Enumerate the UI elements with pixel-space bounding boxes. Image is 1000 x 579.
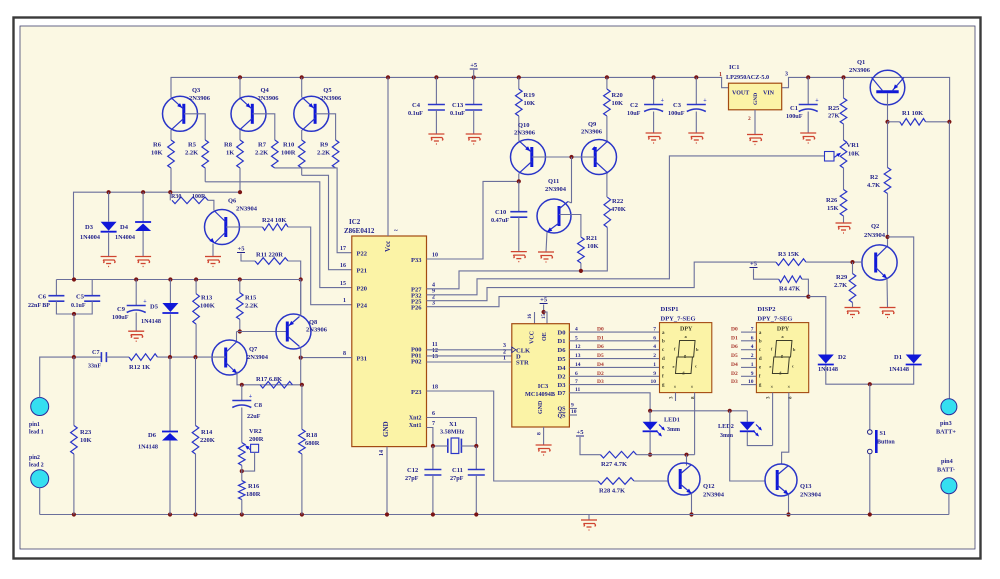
svg-text:×: × (787, 386, 790, 391)
wire DISP1 left stub (675, 393, 677, 401)
capacitor C10 0.47uF (518, 181, 520, 211)
svg-text:1N4148: 1N4148 (889, 366, 909, 373)
pin3 BATT+ terminal (941, 399, 957, 415)
wire R29 to ground (852, 303, 854, 308)
svg-text:R1 10K: R1 10K (902, 110, 923, 117)
wire DISP2 stub D4 (741, 366, 756, 368)
wire P01 to IC3 D (427, 355, 512, 357)
svg-text:R14: R14 (201, 429, 213, 436)
svg-text:3: 3 (432, 301, 435, 307)
wire Q3 collector (170, 130, 172, 140)
wire P25 pin2 to R3 (427, 262, 777, 301)
wire Q12 collector (686, 455, 688, 466)
wire R14 to bus (195, 454, 197, 515)
svg-text:680R: 680R (305, 440, 320, 447)
transistor Q4 2N3906 (231, 96, 266, 131)
svg-text:Q13: Q13 (800, 483, 812, 490)
svg-text:100K: 100K (200, 303, 215, 310)
junction Q12 emitter (689, 512, 693, 516)
svg-text:Xnt1: Xnt1 (409, 423, 422, 429)
wire Q8 emitter up (300, 280, 302, 316)
wire C9 to ground (135, 313, 137, 332)
wire P32 pin9 to VR1 wiper (427, 156, 826, 295)
svg-text:100R: 100R (281, 150, 296, 157)
junction Q10/C10/P33 (517, 179, 521, 183)
junction bottom bus (474, 512, 478, 516)
svg-text:pin3: pin3 (940, 420, 952, 427)
svg-text:C1: C1 (790, 105, 798, 112)
svg-text:GND: GND (382, 421, 390, 437)
transistor Q11 2N3904 (537, 199, 571, 233)
junction +5 bus (299, 277, 303, 281)
IC3 QS stubs (569, 408, 577, 410)
svg-text:D3: D3 (85, 224, 94, 231)
wire pin2 to bus (39, 488, 41, 515)
junction on rail (517, 75, 521, 79)
junction bottom bus (240, 512, 244, 516)
svg-text:C10: C10 (495, 209, 506, 216)
junction base link (569, 155, 573, 159)
svg-text:D2: D2 (558, 374, 566, 381)
svg-text:7: 7 (575, 379, 578, 385)
svg-text:R7: R7 (258, 142, 267, 149)
svg-text:4: 4 (653, 344, 656, 350)
wire C10 to ground (518, 217, 520, 251)
wire DISP2 stub D2 (741, 375, 756, 377)
wire R12 to Q7 base (158, 356, 226, 358)
svg-text:1K: 1K (226, 150, 234, 157)
wire Q7 collector (236, 332, 238, 343)
svg-text:C5: C5 (76, 294, 85, 301)
svg-text:D3: D3 (558, 382, 567, 389)
crystal X1 3.58MHz (447, 439, 449, 453)
transistor Q9 2N3906 (582, 140, 617, 175)
svg-text:+: + (143, 299, 147, 305)
svg-text:C8: C8 (254, 402, 263, 409)
wire D3 to ground (108, 233, 110, 257)
svg-text:3.58MHz: 3.58MHz (440, 429, 464, 436)
svg-text:pin4: pin4 (941, 458, 953, 465)
resistor R13 100K (195, 280, 197, 294)
svg-text:R26: R26 (826, 197, 838, 204)
wire D6 to bus (169, 441, 171, 515)
junction R21/P27 (579, 269, 583, 273)
wire IC1 GND to ground (754, 110, 756, 135)
svg-text:0.1uF: 0.1uF (408, 110, 423, 117)
svg-text:LED2: LED2 (718, 423, 734, 430)
svg-text:DISP2: DISP2 (757, 306, 775, 313)
svg-text:P23: P23 (411, 389, 422, 396)
junction bottom bus (72, 512, 76, 516)
svg-text:2N3906: 2N3906 (849, 67, 871, 74)
svg-text:DPY_7-SEG: DPY_7-SEG (757, 316, 792, 323)
resistor R15 2.2K (239, 280, 241, 293)
svg-text:QS: QS (557, 407, 566, 413)
wire Q12 emitter to bus (691, 494, 693, 515)
svg-text:MC14094B: MC14094B (525, 391, 555, 398)
svg-text:pin2: pin2 (29, 455, 40, 461)
wire IC3 to DISP1 segment D4 (569, 366, 659, 368)
svg-text:100uF: 100uF (112, 314, 129, 321)
svg-text:16: 16 (528, 314, 533, 320)
wire P26 pin3 to D2 node (427, 297, 809, 307)
svg-text:10K: 10K (151, 150, 163, 157)
transistor Q5 2N3906 (294, 96, 329, 131)
svg-text:R28 4.7K: R28 4.7K (599, 488, 625, 495)
wire IC3 to DISP1 segment D2 (569, 375, 659, 377)
wire rail right of IC1 (782, 77, 950, 121)
wire C6 node down to pin1 line (73, 314, 75, 357)
resistor R22 470K (604, 197, 611, 227)
svg-text:P24: P24 (357, 303, 368, 310)
resistor R29 2.7K (852, 262, 854, 273)
wire Xnt2 pin6 to crystal right (427, 418, 477, 447)
potentiometer VR2 200R (239, 443, 246, 466)
wire pin1 to C7/R12 line (40, 357, 102, 397)
svg-text:17: 17 (340, 246, 346, 252)
wire R8 bottom (239, 168, 241, 192)
wire R5 to IC2 P20 pin15 (205, 182, 352, 288)
wire P31 pin8 (301, 357, 352, 359)
transistor Q3 2N3906 (163, 96, 198, 131)
wire VR2 wiper to bottom (242, 452, 255, 471)
svg-text:10K: 10K (80, 437, 92, 444)
svg-text:Q4: Q4 (261, 87, 270, 94)
wire R9 bottom joins P22 net (335, 167, 337, 169)
svg-text:VIN: VIN (763, 91, 775, 97)
wire R1 right rail down to pin3 (948, 122, 950, 399)
junction on rail (652, 75, 656, 79)
svg-text:pin1: pin1 (29, 422, 40, 428)
svg-text:Vcc: Vcc (384, 241, 392, 252)
svg-text:D7: D7 (558, 390, 567, 397)
wire pin4 to bottom bus (948, 494, 950, 515)
svg-text:2.2K: 2.2K (255, 150, 268, 157)
svg-text:LP2950ACZ-5.0: LP2950ACZ-5.0 (726, 74, 769, 81)
junction R17/R18/Q8 (300, 383, 304, 387)
wire Q10 collector to C10 node (518, 174, 520, 182)
resistor R1 10K (888, 121, 900, 123)
svg-text:DPY_7-SEG: DPY_7-SEG (661, 316, 696, 323)
wire IC3 to DISP1 segment D6 (569, 349, 659, 351)
wire IC3 to DISP1 segment D5 (569, 358, 659, 360)
svg-text:lead 2: lead 2 (29, 463, 44, 469)
junction bottom bus (168, 512, 172, 516)
svg-text:3: 3 (503, 343, 506, 349)
resistor R16 180R (239, 481, 246, 500)
junction Q2 base/R29 (850, 260, 854, 264)
svg-text:1: 1 (751, 362, 754, 368)
svg-text:2.2K: 2.2K (185, 150, 198, 157)
svg-text:R20: R20 (612, 92, 623, 99)
svg-text:2N3904: 2N3904 (864, 232, 886, 239)
svg-text:D4: D4 (597, 362, 604, 368)
display DISP2 DPY_7-SEG body (756, 323, 808, 393)
svg-text:VCC: VCC (530, 331, 536, 344)
junction R14 top (193, 355, 197, 359)
svg-text:10: 10 (571, 409, 577, 415)
ground on bottom bus (588, 515, 590, 521)
svg-text:D2: D2 (597, 371, 604, 377)
svg-text:+5: +5 (750, 261, 758, 268)
wire DISP2 left stub down (772, 393, 774, 446)
svg-text:100uF: 100uF (668, 110, 685, 117)
wire +5 to R11 (241, 254, 255, 262)
resistor R23 10K (73, 357, 75, 425)
resistor R12 1K (129, 354, 158, 361)
resistor R26 15K (843, 168, 845, 190)
svg-text:STR: STR (516, 360, 529, 367)
svg-text:~: ~ (394, 227, 398, 235)
svg-text:12: 12 (575, 344, 581, 350)
svg-text:3: 3 (785, 72, 788, 78)
svg-text:6: 6 (575, 371, 578, 377)
svg-text:R18: R18 (306, 432, 318, 439)
svg-text:27K: 27K (828, 113, 840, 120)
wire Q9 collector to R22 (606, 174, 608, 198)
svg-text:1: 1 (653, 362, 656, 368)
svg-text:11: 11 (575, 387, 580, 393)
capacitor C7 33nF (101, 352, 106, 362)
wire C12 to bus (432, 475, 434, 515)
svg-text:R5: R5 (188, 142, 197, 149)
svg-text:+: + (661, 98, 665, 104)
svg-text:IC2: IC2 (349, 218, 361, 226)
wire node to D2 (808, 297, 825, 355)
svg-text:C3: C3 (673, 102, 682, 109)
junction X1 right (474, 444, 478, 448)
svg-text:P02: P02 (411, 359, 421, 366)
junction D1 branch (885, 235, 889, 239)
svg-text:+5: +5 (540, 297, 548, 304)
svg-text:C7: C7 (92, 349, 100, 356)
svg-text:100R: 100R (192, 194, 206, 200)
svg-text:Q8: Q8 (309, 319, 318, 326)
svg-text:10K: 10K (524, 100, 536, 107)
diode D2 1N4148 (818, 355, 834, 364)
svg-text:R29: R29 (836, 274, 848, 281)
junction C5/C6 top (72, 277, 76, 281)
svg-text:D6: D6 (148, 432, 157, 439)
svg-text:D2: D2 (838, 354, 846, 361)
junction pin1 line R23 (72, 355, 76, 359)
svg-text:1N4148: 1N4148 (138, 444, 158, 451)
svg-text:4: 4 (751, 344, 754, 350)
svg-text:15K: 15K (827, 205, 839, 212)
svg-text:+: + (249, 394, 253, 400)
pin2 lead2 terminal (31, 470, 49, 488)
junction VR2 (240, 469, 244, 473)
LED LED2 3mm (746, 411, 748, 422)
svg-text:1: 1 (503, 356, 506, 362)
junction S1 top (868, 382, 872, 386)
capacitor C9 100uF (135, 280, 137, 306)
wire +5 to IC3 VCC/OE (543, 305, 545, 313)
svg-text:R4 47K: R4 47K (779, 286, 800, 293)
transistor Q12 2N3904 (668, 463, 700, 495)
svg-text:D5: D5 (597, 353, 604, 359)
junction bottom bus (385, 512, 389, 516)
svg-text:1N4148: 1N4148 (141, 318, 161, 325)
capacitor C2 10uF (653, 77, 655, 104)
wire Q3 top (170, 97, 172, 98)
svg-text:R30: R30 (171, 194, 181, 200)
svg-text:+5: +5 (470, 62, 478, 69)
svg-text:VR2: VR2 (249, 428, 262, 435)
wire LED1 to R27 node (649, 432, 651, 455)
svg-text:R27 4.7K: R27 4.7K (601, 461, 627, 468)
resistor R7 2.2K (272, 140, 279, 168)
svg-text:2N3906: 2N3906 (258, 95, 280, 102)
wire R30 to Q6 collector (208, 200, 214, 210)
resistor R4 47K (779, 276, 802, 283)
IC2 Z86E0412 body (352, 236, 427, 447)
svg-text:2N3904: 2N3904 (703, 492, 725, 499)
svg-text:0.1uF: 0.1uF (71, 303, 86, 309)
svg-text:13: 13 (575, 353, 581, 359)
svg-text:Q2: Q2 (871, 223, 879, 230)
svg-text:R12 1K: R12 1K (129, 364, 150, 371)
svg-text:D4: D4 (558, 365, 567, 372)
svg-text:9: 9 (571, 403, 574, 409)
svg-text:c: c (695, 364, 697, 369)
wire Q2 emitter to ground (886, 279, 889, 308)
junction bus-R6-R30 (168, 190, 172, 194)
svg-text:DPY: DPY (777, 327, 790, 333)
svg-text:14: 14 (379, 450, 385, 456)
capacitor C13 0.1uF (473, 70, 475, 105)
wire +5 bus to C5/C6 (74, 279, 301, 281)
wire DISP2 stub D6 (741, 349, 756, 351)
svg-text:D4: D4 (731, 362, 738, 368)
wire LED line (650, 410, 747, 412)
svg-text:D6: D6 (558, 347, 567, 354)
resistor R19 10K (518, 77, 520, 89)
svg-text:S1: S1 (880, 431, 886, 437)
svg-text:Q12: Q12 (703, 483, 715, 490)
svg-text:15: 15 (542, 314, 547, 320)
svg-text:2N3906: 2N3906 (581, 129, 603, 136)
wire Q5 top (301, 77, 303, 97)
capacitor C11 27pF (475, 446, 477, 470)
svg-text:P33: P33 (411, 257, 422, 264)
svg-text:Q1: Q1 (857, 59, 865, 66)
svg-text:D5: D5 (558, 356, 567, 363)
svg-text:Q11: Q11 (548, 178, 559, 185)
svg-text:27pF: 27pF (450, 475, 464, 482)
wire IC3 to DISP1 segment D0 (569, 331, 659, 333)
wire P33 pin10 to Q10 collector node (427, 181, 519, 259)
transistor Q7 2N3904 (212, 340, 247, 375)
resistor R6 10K (168, 140, 175, 168)
svg-text:C13: C13 (452, 102, 464, 109)
junction C5/C6 bottom (72, 312, 76, 316)
junction Q1 base/R1/R2 (885, 120, 889, 124)
capacitor C6 22nF (55, 280, 57, 296)
svg-text:9: 9 (751, 371, 754, 377)
wire Q1 base to R1 node (887, 93, 889, 122)
svg-text:2N3906: 2N3906 (306, 327, 328, 334)
svg-text:8: 8 (537, 432, 543, 435)
svg-text:2: 2 (751, 353, 754, 359)
svg-text:R8: R8 (224, 142, 233, 149)
wire R10 to IC2 P21 pin16 (302, 175, 352, 269)
wire R5 bottom to P20 stair (204, 168, 206, 182)
wire Q4 top (239, 77, 241, 97)
resistor R2 4.7K (887, 122, 889, 168)
junction on rail (841, 75, 845, 79)
svg-text:C11: C11 (452, 467, 463, 474)
resistor R25 27K (843, 77, 845, 98)
resistor R11 220R (255, 258, 288, 265)
resistor R3 15K (776, 259, 806, 266)
wire R19 to Q10 (518, 116, 520, 141)
svg-text:IC1: IC1 (729, 64, 739, 71)
pin4 BATT- terminal (941, 478, 957, 494)
wire bottom ground bus (40, 514, 949, 516)
svg-text:+5: +5 (577, 429, 585, 436)
wire DISP2 stub D1 (741, 340, 756, 342)
svg-text:0.47uF: 0.47uF (491, 217, 509, 224)
svg-text:+5: +5 (238, 246, 246, 253)
transistor Q2 2N3904 (862, 245, 897, 280)
svg-text:D0: D0 (558, 330, 566, 337)
wire to switch S1 (869, 384, 871, 430)
svg-text:R11 220R: R11 220R (256, 252, 283, 259)
wire DISP2 stub D3 (741, 384, 756, 386)
wire Q11 base to R21 (559, 215, 581, 238)
wire P23 pin18 to R28 (427, 391, 599, 481)
junction on rail (238, 75, 242, 79)
wire DISP1 right stub to driver line (694, 393, 696, 455)
svg-text:3mm: 3mm (667, 427, 680, 433)
svg-text:×: × (674, 386, 677, 391)
svg-text:e: e (673, 364, 675, 369)
svg-text:DPY: DPY (680, 327, 693, 333)
wire R26 to ground (843, 216, 845, 223)
svg-text:R22: R22 (612, 198, 623, 205)
junction Q7 emitter / C8 (240, 383, 244, 387)
wire Q13 emitter to bus (788, 495, 790, 515)
capacitor C1 100uF (807, 77, 809, 104)
svg-text:10K: 10K (848, 151, 860, 158)
svg-text:14: 14 (575, 362, 581, 368)
svg-text:R10: R10 (283, 142, 294, 149)
svg-text:R15: R15 (245, 295, 257, 302)
wire top +V rail (171, 77, 729, 96)
resistor R17 6.8K (260, 382, 292, 389)
junction LED1 top (648, 409, 652, 413)
svg-text:2N3906: 2N3906 (320, 95, 342, 102)
svg-text:LED1: LED1 (664, 417, 680, 424)
wire IC3 to DISP1 segment D1 (569, 340, 659, 342)
wire IC3 to DISP1 segment D3 (569, 384, 659, 386)
junction on rail (605, 75, 609, 79)
resistor R21 10K (578, 237, 585, 263)
wire Q4 collector (239, 130, 241, 140)
svg-text:16: 16 (340, 263, 346, 269)
svg-text:Q10: Q10 (518, 122, 530, 129)
capacitor C8 22uF (241, 385, 243, 401)
capacitor C3 100uF (695, 77, 697, 104)
svg-text:100uF: 100uF (786, 113, 803, 120)
wire Q13 base from LED line (730, 411, 765, 481)
svg-text:D2: D2 (731, 371, 738, 377)
wire Q11 collector entry (568, 202, 572, 204)
wire R21 bottom (580, 263, 582, 271)
svg-text:3mm: 3mm (720, 433, 733, 439)
wire C7 to R12 (106, 356, 129, 358)
